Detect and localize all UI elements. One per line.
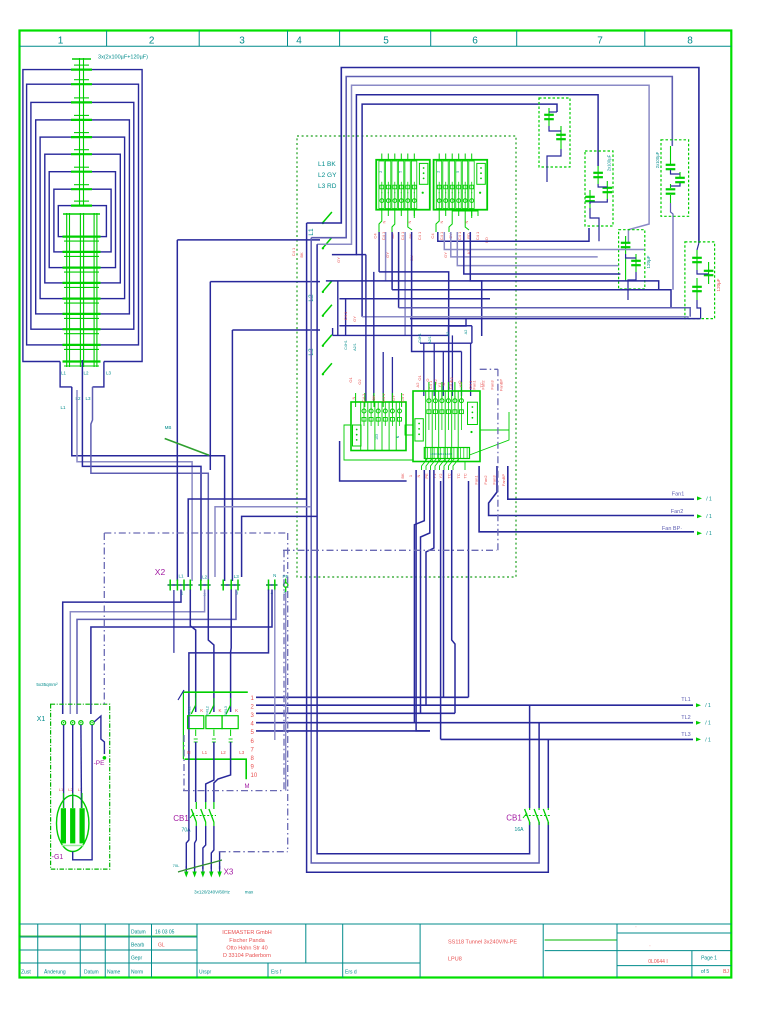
wire strip drop 2 [414, 470, 424, 723]
svg-text:Zust: Zust [21, 970, 31, 976]
svg-text:FanBP: FanBP [501, 474, 506, 487]
wire loop 1 top [307, 68, 699, 244]
wire staircase step 2 [471, 326, 473, 343]
svg-text:C4 1: C4 1 [468, 380, 473, 389]
svg-text:Y2: Y2 [438, 473, 443, 479]
svg-text:TC: TC [456, 473, 461, 478]
enclosure boundary inner vertical [283, 550, 285, 790]
svg-text:3/4/L2: 3/4/L2 [206, 706, 210, 716]
wire field block A2 drop 2 [444, 232, 644, 250]
wire loop 5 top [362, 104, 557, 317]
terminal block module A2 [434, 160, 488, 210]
wire N stub [173, 590, 175, 653]
svg-text:O2: O2 [357, 379, 362, 385]
wire L3 capbank to X2 [91, 387, 208, 581]
wire K1 bus line 3 [256, 712, 455, 714]
K1 wire number labels 1-10 [251, 696, 258, 779]
svg-text:M: M [245, 784, 250, 790]
cable marker X3 [173, 860, 222, 872]
svg-text:ICEMASTER GmbH: ICEMASTER GmbH [222, 930, 272, 936]
wire PE vertical [285, 592, 287, 791]
dotted enclosure box capacitor unit [297, 136, 516, 577]
svg-text:C4 1: C4 1 [475, 231, 480, 240]
svg-text:2x100µF: 2x100µF [655, 151, 660, 168]
svg-text:2x100µF: 2x100µF [607, 154, 612, 171]
wire field horizontal m9 [420, 342, 472, 344]
svg-text:X3: X3 [224, 868, 234, 877]
wire code labels above contactor B2 [351, 380, 484, 402]
wire field horizontal m7 [339, 325, 472, 327]
svg-text:C4 1: C4 1 [291, 247, 296, 256]
wire field horizontal m3 [392, 290, 671, 308]
svg-text:SS118 Tunnel 3x240V/N-PE: SS118 Tunnel 3x240V/N-PE [448, 940, 517, 946]
svg-text:N: N [464, 220, 469, 223]
plug X1 [37, 716, 94, 725]
circuit breaker CB1 left [173, 802, 216, 834]
wire K1 bus line 4 TL2 [256, 722, 693, 724]
svg-text:Fan3: Fan3 [491, 475, 496, 485]
svg-text:O1: O1 [417, 375, 422, 381]
svg-text:A2: A2 [446, 332, 450, 337]
wire field horizontal m1 [379, 272, 449, 390]
svg-text:5: 5 [383, 36, 389, 47]
node labels L1 L2 L3 capacitor bank [60, 371, 111, 411]
svg-text:6: 6 [472, 36, 478, 47]
svg-text:TC: TC [479, 382, 484, 387]
svg-text:L3: L3 [239, 750, 245, 755]
wire N vertical 2 [274, 590, 276, 741]
svg-text:N: N [439, 220, 444, 223]
svg-text:N: N [382, 220, 387, 223]
wire Fan1 output [508, 466, 694, 499]
svg-text:3x(2x100µF+120µF): 3x(2x100µF+120µF) [98, 55, 148, 61]
svg-text:A2: A2 [464, 330, 468, 335]
svg-text:Änderung: Änderung [44, 969, 66, 976]
wire field block A2 drop 6 [470, 232, 658, 290]
svg-text:GY: GY [391, 395, 396, 401]
svg-text:BJ: BJ [723, 969, 729, 975]
svg-text:4: 4 [296, 36, 302, 47]
wire staircase U1 to X2 [188, 499, 306, 577]
wire L2 capbank to X2 [82, 360, 201, 581]
svg-text:A2/1: A2/1 [353, 343, 357, 351]
svg-text:L1: L1 [202, 750, 208, 755]
svg-text:Fan1: Fan1 [672, 492, 685, 498]
terminal strip X below contactor [424, 448, 469, 459]
svg-text:BK: BK [299, 252, 304, 258]
svg-text:LPU8: LPU8 [448, 957, 462, 963]
svg-text:TC: TC [446, 473, 451, 478]
wire drop into B2 5 [461, 352, 463, 397]
wire field block A1 drop 4 [398, 232, 400, 308]
wire to switch L3 [232, 329, 320, 331]
svg-text:BK: BK [400, 473, 405, 479]
svg-text:GY: GY [352, 316, 357, 322]
svg-text:C4 1: C4 1 [448, 380, 453, 389]
capacitor box C3 [585, 151, 613, 241]
svg-text:5/6/L3: 5/6/L3 [224, 706, 228, 716]
wire X1 to G1 L3 [80, 725, 83, 808]
svg-text:K: K [218, 708, 221, 713]
switch L1 [308, 212, 332, 250]
svg-text:70L: 70L [173, 863, 180, 868]
wire field block A2 drop 3 [451, 232, 598, 257]
svg-text:0L0644 I: 0L0644 I [648, 959, 667, 965]
wire loop 4 top [332, 95, 598, 255]
wire strip drop 4 [426, 470, 434, 705]
wire tap TL3 to CB1.2 [547, 739, 549, 808]
svg-text:-PE: -PE [94, 760, 106, 767]
svg-text:/ 1: / 1 [706, 496, 712, 502]
wire strip drop 1 [416, 470, 430, 731]
svg-text:Y1: Y1 [437, 382, 442, 388]
PE terminal [94, 756, 107, 767]
svg-text:CB1: CB1 [506, 814, 522, 823]
svg-text:Gepr: Gepr [131, 956, 142, 962]
svg-text:C4H1: C4H1 [418, 333, 422, 343]
svg-text:C4 1: C4 1 [361, 393, 366, 402]
svg-text:max: max [245, 890, 254, 895]
svg-text:5x35qmm²: 5x35qmm² [36, 682, 58, 687]
wire field block A1 drop 2 [385, 232, 387, 281]
svg-text:C4: C4 [430, 233, 435, 239]
svg-text:1: 1 [58, 36, 64, 47]
svg-text:16 03 05: 16 03 05 [155, 930, 175, 936]
svg-text:Datum: Datum [84, 970, 99, 976]
wire field block A2 drop 1 [438, 228, 589, 241]
wire field horizontal m5 [399, 308, 691, 317]
terminal strip fan-out wires [422, 412, 510, 470]
svg-text:C4: C4 [373, 233, 378, 239]
svg-text:L2: L2 [83, 371, 89, 376]
svg-text:TC: TC [463, 473, 468, 478]
wire field block A1 drop 5 [404, 232, 406, 335]
svg-text:MB: MB [165, 425, 172, 430]
svg-text:D 33104 Paderborn: D 33104 Paderborn [223, 953, 271, 959]
wire corner h extension [356, 254, 366, 256]
svg-text:L1: L1 [178, 574, 184, 579]
svg-text:5: 5 [399, 171, 403, 173]
wire right fan line r10 [410, 318, 701, 320]
svg-text:O1: O1 [348, 377, 353, 383]
svg-text:1/2/L1: 1/2/L1 [188, 706, 192, 716]
wire G1 L1 top green stubs [63, 793, 82, 808]
svg-text:GY: GY [336, 257, 341, 263]
wire field vertical left b [345, 299, 347, 336]
svg-text:5: 5 [456, 171, 460, 173]
enclosure boundary M left [183, 735, 185, 791]
title block [20, 924, 732, 978]
capacitor chain top ladder [71, 58, 92, 207]
svg-text:Fischer Panda: Fischer Panda [229, 938, 265, 944]
wire FanBP output [479, 466, 694, 532]
svg-text:TL1: TL1 [681, 697, 690, 703]
wire field horizontal m2 [326, 281, 482, 336]
wire X2 to K1 feeder L1 [190, 590, 195, 713]
wire X2-2 to X1 [70, 590, 204, 715]
wire X2 to K1 feeder L2 [208, 590, 214, 713]
wire X1 to G1 L2 [72, 725, 74, 808]
svg-text:Page 1: Page 1 [701, 956, 717, 962]
sheet arrow Fan1 [697, 496, 702, 500]
svg-text:N: N [416, 474, 421, 477]
svg-text:C4H1: C4H1 [344, 340, 348, 350]
svg-text:120µF: 120µF [646, 255, 651, 268]
wire L1 capbank to X2 [72, 387, 225, 581]
module A2 bottom hook wires [436, 210, 478, 232]
capacitor box C5 [619, 230, 645, 300]
wire stub into B1 top 4 [391, 357, 393, 403]
wire drop into B2 6 [470, 343, 472, 396]
svg-text:Bearb: Bearb [131, 943, 145, 949]
wire CB1 out 2 [203, 826, 206, 869]
wire switch L3 feeder vertical [231, 330, 233, 581]
svg-text:A2: A2 [415, 382, 420, 388]
svg-text:L2: L2 [202, 575, 208, 580]
wire loop 2 top [311, 77, 672, 238]
svg-text:RD: RD [484, 237, 489, 243]
wire K1 out 2 [206, 742, 214, 802]
wire K1 out 1 [195, 742, 197, 802]
wire K1 bus line 5 [256, 730, 430, 732]
wire field block A2 drop 4 [457, 232, 618, 266]
svg-text:L3 RD: L3 RD [318, 183, 337, 190]
svg-text:2: 2 [437, 171, 441, 173]
svg-text:/ 1: / 1 [705, 703, 711, 709]
svg-text:C4 1: C4 1 [428, 380, 433, 389]
svg-text:3x120/240V/60Hz: 3x120/240V/60Hz [194, 890, 231, 895]
wire color legend L1 BK L2 GY L3 RD [318, 161, 337, 190]
capacitor bank pedestal outline [60, 362, 72, 387]
svg-text:16A: 16A [515, 827, 525, 833]
svg-text:Ers d: Ers d [345, 970, 357, 976]
sheet arrow TL2 [696, 721, 701, 725]
wire X2 to K1 feeder L3 [230, 590, 233, 713]
contactor block B2 [413, 391, 480, 462]
svg-text:/ 1: / 1 [706, 531, 712, 537]
sheet arrow Fan BP [697, 531, 702, 535]
generator enclosure box [51, 704, 110, 869]
plug X3 arrows [184, 866, 234, 878]
wire X2-3 to X1 [77, 590, 236, 715]
capacitor box C4 [661, 140, 689, 290]
enclosure boundary upper right horizontal [283, 549, 496, 551]
svg-text:N: N [351, 396, 356, 399]
svg-text:Fan2: Fan2 [483, 475, 488, 485]
contactor block B2 top pin hooks [429, 382, 462, 398]
enclosure boundary bottom [219, 851, 288, 853]
green link wire B1 to B2 [344, 425, 413, 460]
svg-text:L1 BK: L1 BK [318, 161, 336, 168]
wire field vertical 2 [373, 272, 375, 402]
wire staircase U2 to X2 [215, 507, 311, 577]
module A1 top pin stubs [382, 154, 415, 160]
wire field horizontal m6 [362, 317, 688, 319]
wire vertical run to bottom U2 [311, 238, 539, 863]
svg-text:L1: L1 [61, 371, 67, 376]
svg-text:N: N [273, 573, 276, 578]
svg-text:GL: GL [158, 943, 165, 949]
wire field block A1 drop 3 [391, 232, 393, 290]
wire drop into B2 2 [433, 343, 435, 396]
capacitor box C2 [539, 98, 570, 182]
switch L2 [308, 281, 332, 317]
wire 5th to X3 [219, 852, 221, 869]
svg-text:GY: GY [443, 252, 448, 258]
wire X1 to G1 L1 [63, 725, 65, 808]
wire field horizontal m4 [339, 298, 490, 300]
svg-text:Datum: Datum [131, 930, 146, 936]
enclosure boundary top [104, 532, 287, 534]
wire switch L1 feeder vertical [176, 240, 178, 581]
svg-text:CB1: CB1 [173, 814, 189, 823]
terminal strip X2 [155, 567, 289, 597]
wire staircase U3 to X2 [242, 516, 318, 577]
K1 phase labels [187, 750, 245, 755]
wire code labels below module A2 [430, 220, 489, 257]
wire X1 4 to G1 star point [73, 725, 92, 860]
wire vertical run to bottom U3 [317, 244, 529, 854]
capacitor box C6 [685, 242, 715, 319]
switch L3 [308, 335, 332, 376]
wire switch L2 feeder vertical [209, 282, 211, 470]
wire staircase step 1 [449, 319, 467, 336]
capacitor chain bottom ladders [63, 213, 101, 367]
wire staircase stub left [332, 328, 334, 335]
wire code labels below terminal strip [400, 379, 506, 487]
wire vertical run to bottom U1 [307, 223, 549, 872]
circuit breaker CB1 right [506, 808, 551, 833]
module A2 top pin stubs [439, 154, 472, 160]
wire X2-4 to X1 [91, 590, 272, 715]
svg-text:/ 1: / 1 [706, 514, 712, 520]
wire Fan2 output [489, 466, 694, 516]
svg-text:TL3: TL3 [681, 732, 690, 738]
enclosure boundary right [287, 533, 289, 852]
enclosure boundary upper right corner [480, 368, 498, 370]
contactor block B1 [351, 402, 406, 451]
svg-text:L3: L3 [106, 371, 112, 376]
svg-text:L1: L1 [308, 228, 315, 236]
cable marker MB [165, 425, 209, 455]
svg-text:1203 1213 1223: 1203 1213 1223 [430, 452, 452, 456]
svg-text:L3: L3 [234, 574, 240, 579]
wire strip drop 6 [452, 470, 455, 713]
svg-text:C4 1: C4 1 [439, 231, 444, 240]
G1 phase labels [59, 787, 83, 792]
svg-text:2: 2 [149, 36, 155, 47]
svg-text:70A: 70A [182, 828, 192, 834]
wire to switch L1 [177, 239, 320, 241]
svg-text:Fan2: Fan2 [671, 509, 684, 515]
wire stub into B1 top 3 [382, 352, 384, 403]
green link wire contactor left [405, 425, 413, 435]
contactor K1 pole labels [188, 706, 239, 716]
svg-text:Otto Hahn Str 40: Otto Hahn Str 40 [226, 946, 267, 952]
svg-text:8: 8 [687, 36, 693, 47]
svg-text:Ers f: Ers f [271, 970, 282, 976]
wire drop into B2 3 [442, 352, 444, 397]
wire K1 bus line 1 [256, 696, 469, 698]
wire CB1 out 1 [195, 826, 197, 869]
wire CB1 out 3 [211, 826, 214, 869]
svg-text:N: N [187, 750, 190, 755]
wire X2 N feeder [189, 590, 269, 757]
wire field horizontal m8 [333, 334, 449, 336]
svg-text:N: N [407, 220, 412, 223]
svg-text:of 5: of 5 [701, 969, 710, 975]
svg-text:Urspr: Urspr [199, 970, 212, 976]
svg-text:C4 1: C4 1 [381, 393, 386, 402]
wire to switch L2 [210, 281, 320, 283]
svg-text:L3: L3 [85, 396, 91, 401]
wire loop 3 top [317, 85, 649, 244]
enclosure boundary upper right vertical [497, 369, 499, 550]
svg-text:Name: Name [107, 970, 121, 976]
svg-text:C4 1: C4 1 [400, 393, 405, 402]
svg-text:C4 1: C4 1 [417, 231, 422, 240]
wire TL3 line [441, 738, 693, 740]
sheet arrow TL3 [696, 737, 701, 741]
svg-text:103: 103 [375, 434, 379, 440]
contactor K1 [183, 692, 247, 779]
svg-text:Fan1: Fan1 [474, 475, 479, 485]
wire field block A1 drop 6 [412, 232, 462, 352]
svg-text:L2: L2 [221, 750, 227, 755]
wire capbank feeder 2 [77, 390, 192, 581]
generator G1 [52, 795, 89, 861]
sheet arrow Fan2 [697, 514, 702, 518]
svg-text:3: 3 [239, 36, 245, 47]
svg-text:X1: X1 [37, 716, 46, 723]
wire strip drop 5 [443, 470, 445, 697]
capacitor bank nested wiring loops [23, 70, 142, 362]
svg-text:TL2: TL2 [681, 715, 690, 721]
wire X2-1 to X1 [63, 590, 181, 715]
wire K1 bus vertical TL3 [440, 481, 442, 739]
wire N to X3 [186, 756, 189, 869]
svg-text:Y2: Y2 [458, 382, 463, 388]
svg-text:X2: X2 [155, 567, 166, 577]
wire tap TL2 to CB1.2 [538, 723, 540, 808]
svg-text:L2 GY: L2 GY [318, 172, 337, 179]
contactor K1 lever [178, 690, 184, 700]
wire field vertical left a [337, 281, 339, 336]
terminal block module A1 [376, 160, 430, 210]
wire field vertical switch out L3a [365, 255, 367, 402]
wire K1 bus vertical 1 [468, 481, 470, 697]
sheet arrow TL1 [696, 703, 701, 707]
svg-text:A2/1: A2/1 [428, 336, 432, 344]
svg-text:K: K [235, 708, 238, 713]
svg-text:BK: BK [371, 395, 376, 401]
svg-text:120µF: 120µF [716, 278, 721, 291]
svg-text:10: 10 [251, 773, 258, 779]
svg-text:/ 1: / 1 [705, 721, 711, 727]
wire K1 bus line 2 TL1 [256, 704, 693, 706]
svg-text:C4 1: C4 1 [343, 311, 348, 320]
wire K1 out 3 [214, 742, 231, 802]
svg-text:K: K [200, 708, 203, 713]
wire tap TL1 to CB1.2 [529, 705, 531, 808]
svg-text:/ 1: / 1 [705, 737, 711, 743]
wire field block A2 drop 5 [464, 232, 621, 274]
svg-text:FanBP: FanBP [499, 379, 504, 392]
svg-text:2: 2 [379, 171, 383, 173]
svg-text:Fan3: Fan3 [490, 380, 495, 390]
wire code labels in field left [291, 247, 357, 322]
svg-text:L1: L1 [60, 405, 66, 410]
